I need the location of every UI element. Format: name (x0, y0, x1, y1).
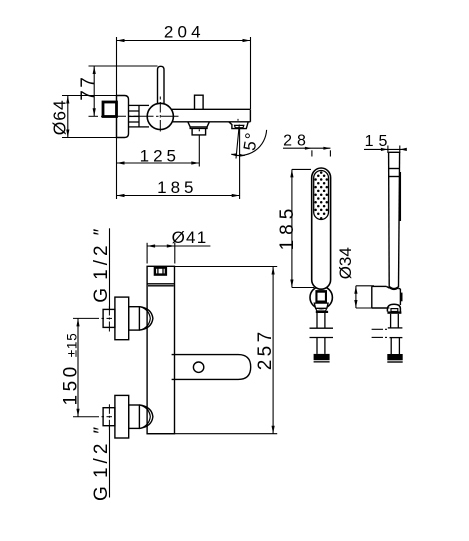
dimension 77 line (89, 66, 158, 116)
hose connector front (314, 354, 330, 363)
outlet axis vertical extension (239, 129, 241, 199)
wall union square (103, 102, 117, 117)
body joint lines (147, 283, 174, 285)
hose segment 1 side (388, 314, 403, 328)
dimension D41 extension lines (147, 243, 210, 264)
bottom G connection union (129, 405, 140, 428)
holder bracket side (372, 286, 401, 308)
svg-text:Ø64: Ø64 (50, 99, 70, 135)
bottom G connection nut (103, 408, 115, 426)
outlet centerline tick (237, 119, 239, 121)
dimension 185 arrows (117, 194, 240, 197)
spray dots (314, 171, 328, 219)
dimension 204 line (117, 37, 251, 109)
5 degree arc arrows (231, 153, 246, 157)
head side profile (389, 152, 400, 287)
5 degree tilted line (236, 125, 239, 159)
dimension 257 arrows (272, 267, 275, 434)
dimension D41 arrows (147, 244, 175, 247)
connector block (139, 105, 149, 127)
dimension D34 (356, 286, 390, 308)
hose break dashes side (372, 329, 387, 337)
hose segment 1 front (310, 313, 334, 328)
hose segment 2 side (390, 338, 403, 354)
dimension 125 arrows (117, 161, 200, 164)
lever front (172, 355, 251, 380)
holder hook side (387, 304, 400, 311)
bottom G connection flange disc (115, 395, 129, 438)
shower head spray face (314, 171, 329, 220)
spray face edge side (399, 172, 401, 221)
dimension 15 (364, 146, 403, 154)
diverter knob (195, 95, 204, 109)
wire wall extension line (116, 37, 118, 199)
top G connection flange disc (115, 297, 129, 340)
svg-text:15: 15 (365, 133, 393, 150)
svg-text:28: 28 (283, 133, 311, 150)
svg-text:5°: 5° (240, 130, 262, 152)
bottom G connection dome (139, 405, 153, 428)
centerline vertical of valve (159, 97, 161, 132)
shower body capsule (312, 168, 331, 289)
hose connector side (387, 354, 402, 363)
svg-text:185: 185 (157, 178, 197, 197)
dimension 204 arrows (117, 39, 251, 42)
top G connection nut (103, 309, 115, 327)
dimension 125 line (117, 162, 200, 164)
dimension 185 line (117, 195, 240, 197)
aerator band (190, 127, 207, 128)
lever handle (158, 66, 165, 104)
holder cone base bar front (316, 311, 328, 313)
body outline (147, 266, 174, 433)
svg-text:Ø41: Ø41 (172, 228, 208, 247)
valve circle (147, 103, 173, 129)
dimension 28 (283, 148, 330, 156)
aerator flange (188, 122, 210, 127)
spout outlet (229, 122, 248, 129)
handle bottom crescent side (389, 287, 398, 289)
svg-text:Ø34: Ø34 (336, 247, 355, 279)
aerator cup (192, 128, 206, 135)
dimension 77 arrows (93, 66, 96, 116)
svg-text:257: 257 (255, 328, 276, 370)
wall flange (117, 96, 129, 138)
dimension 150 line (77, 318, 79, 416)
aerator axis extension (198, 136, 200, 167)
aerator tick (198, 129, 200, 131)
lever screw circle (193, 362, 203, 372)
centerline horizontal (89, 115, 179, 117)
holder clip front (315, 290, 327, 303)
top G connection dome (139, 307, 153, 330)
holder clip side edge (401, 293, 403, 302)
spout outlet notch (235, 125, 244, 127)
dimension D64 arrows (66, 96, 69, 138)
dimension D64 line (62, 96, 117, 138)
top G connection union (129, 307, 140, 330)
holder cone front (314, 303, 328, 308)
top G connection centerline (73, 306, 112, 332)
top tab (155, 268, 166, 275)
svg-text:185: 185 (277, 204, 298, 251)
holder ring front (310, 286, 332, 308)
top G label line (109, 228, 111, 309)
dimension 150 arrows (76, 318, 79, 416)
dimension 257 extension lines (147, 267, 277, 434)
svg-text:204: 204 (164, 22, 205, 41)
spout body (172, 109, 250, 122)
ribbed connector (129, 105, 140, 127)
svg-text:150±15: 150±15 (61, 332, 82, 405)
dimension 185 shower (292, 169, 314, 287)
svg-text:125: 125 (140, 146, 180, 165)
bottom G label line (109, 426, 111, 498)
svg-text:77: 77 (78, 75, 99, 101)
bottom G connection centerline (73, 404, 112, 430)
hose break / segment 2 front (310, 338, 334, 354)
5 degree arc (231, 130, 266, 156)
